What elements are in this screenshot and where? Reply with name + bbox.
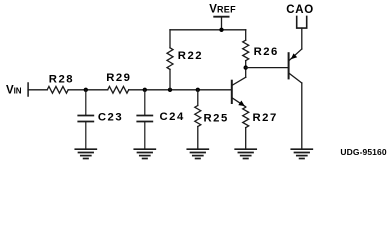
resistor R22 [167, 30, 203, 90]
svg-text:R28: R28 [49, 73, 74, 85]
capacitor C24 [137, 90, 184, 149]
node VREF junction [219, 28, 223, 32]
ground [187, 149, 208, 158]
ground [134, 149, 155, 158]
transistor Q2 [289, 28, 302, 149]
svg-text:R26: R26 [254, 46, 279, 58]
svg-text:R25: R25 [204, 112, 229, 124]
node C24 junction [143, 88, 147, 92]
CAO terminal [286, 4, 314, 28]
wire Q2 base [246, 67, 288, 69]
node R25 junction [196, 88, 200, 92]
svg-text:C24: C24 [160, 111, 185, 123]
VREF terminal [209, 4, 236, 30]
node C23 junction [84, 88, 88, 92]
resistor R29 [106, 72, 131, 93]
node R22 junction [168, 88, 172, 92]
transistor Q1 [232, 68, 246, 107]
ground [235, 149, 256, 158]
resistor R26 [243, 30, 279, 68]
capacitor C23 [78, 90, 123, 149]
svg-text:UDG-95160: UDG-95160 [340, 147, 386, 157]
svg-text:R29: R29 [106, 72, 131, 84]
wire VREF rail [170, 29, 246, 31]
svg-text:VREF: VREF [209, 4, 236, 16]
resistor R27 [243, 107, 278, 149]
input terminal [27, 83, 29, 96]
resistor R28 [47, 73, 74, 93]
svg-text:R22: R22 [178, 50, 203, 62]
node collector junction [244, 65, 248, 69]
wire [129, 89, 232, 91]
ground [291, 149, 312, 158]
svg-text:C23: C23 [98, 112, 123, 124]
wire [68, 89, 108, 91]
ground [75, 149, 96, 158]
svg-text:CAO: CAO [286, 4, 314, 16]
svg-text:VIN: VIN [6, 85, 22, 97]
wire [28, 89, 47, 91]
svg-text:R27: R27 [253, 112, 278, 124]
resistor R25 [195, 90, 229, 149]
